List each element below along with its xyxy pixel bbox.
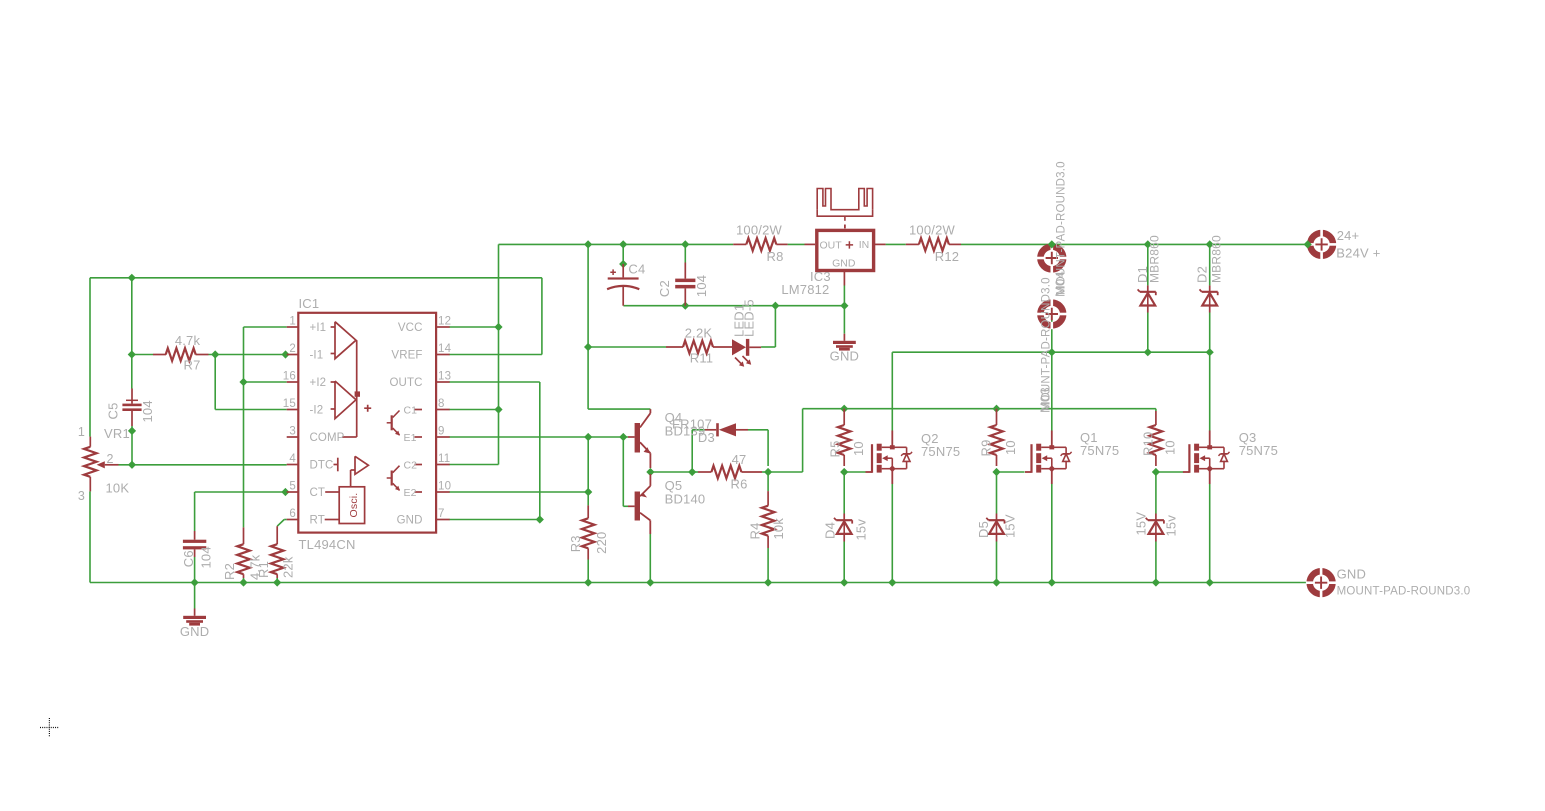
Q1 name label <box>1080 430 1098 445</box>
wire gate node down to D5 <box>996 472 998 514</box>
wire gate rail corner to R10 <box>1155 409 1157 411</box>
svg-text:100/2W: 100/2W <box>736 223 783 238</box>
svg-text:VREF: VREF <box>391 350 422 362</box>
resistor R6 <box>698 466 762 479</box>
svg-text:10: 10 <box>1003 440 1018 455</box>
svg-text:15: 15 <box>283 398 296 410</box>
svg-text:47: 47 <box>732 452 747 467</box>
D5 name label <box>976 521 991 538</box>
wire D6 bottom to rail <box>1155 542 1157 583</box>
svg-text:104: 104 <box>198 546 213 568</box>
junction rail at D5 <box>992 578 1000 586</box>
wire R6 node down to R4 <box>767 472 769 491</box>
wire rail to GND symbol <box>194 583 196 609</box>
IC1 oscillator box <box>325 487 365 524</box>
ground IC3 label <box>830 349 860 364</box>
svg-text:12: 12 <box>438 316 451 328</box>
junction rail at Q3 source <box>1206 578 1214 586</box>
R2 value label <box>248 554 263 580</box>
D1 name label <box>1135 266 1150 283</box>
wire R7 net <box>132 278 287 355</box>
wire DTC net (wiper to pin 4) <box>119 464 287 466</box>
svg-text:MOUNT-PAD-ROUND3.0: MOUNT-PAD-ROUND3.0 <box>1056 161 1068 295</box>
R6 value label <box>732 452 747 467</box>
C2 name label <box>657 280 672 297</box>
wire supply drop to R11/Q4 <box>588 244 650 409</box>
wire Q5 collector to rail <box>649 534 651 583</box>
wire analog ground net <box>623 305 844 307</box>
wire IC3 GND pin to net <box>843 286 845 306</box>
Q1 value label <box>1080 443 1119 458</box>
capacitor C6 <box>183 531 206 557</box>
wire D1 bottom to switched rail <box>1147 313 1149 353</box>
ground left label <box>180 624 210 639</box>
svg-text:10: 10 <box>851 441 866 456</box>
wire C5 bottom to wiper <box>131 426 133 465</box>
wire E2 node down to R3 <box>587 492 589 505</box>
svg-text:15V: 15V <box>1134 512 1149 536</box>
C5 value label <box>140 400 155 422</box>
resistor R8 <box>733 238 787 251</box>
junction rail at R3 <box>584 578 592 586</box>
svg-text:10k: 10k <box>771 518 786 540</box>
svg-text:TL494CN: TL494CN <box>299 537 356 552</box>
junction gate rail at R9 <box>992 405 1000 413</box>
svg-text:104: 104 <box>140 400 155 422</box>
IC1 oscillator label <box>348 493 360 518</box>
C6 name label <box>181 550 196 567</box>
svg-text:IC1: IC1 <box>299 296 320 311</box>
wire gate drive rail <box>803 408 1156 410</box>
wire +I1/+I2 branch to R2 <box>244 327 287 527</box>
B24V pad label <box>1336 246 1380 261</box>
junction rail at R1 <box>273 578 281 586</box>
resistor R11 <box>666 341 732 354</box>
R6 name label <box>730 477 747 492</box>
svg-text:10: 10 <box>1163 440 1178 455</box>
junction ground net at LED <box>771 302 779 310</box>
svg-text:IN: IN <box>859 239 870 251</box>
R3 name label <box>568 535 583 552</box>
wire D4 bottom to rail <box>843 542 845 583</box>
wire D3 branch up <box>692 430 705 472</box>
R8 value label <box>736 223 783 238</box>
svg-text:R8: R8 <box>766 249 783 264</box>
svg-text:MOUNT-PAD-ROUND3.0: MOUNT-PAD-ROUND3.0 <box>1337 586 1471 598</box>
svg-text:4: 4 <box>289 453 296 465</box>
wire left rail down to VR1 <box>89 278 91 437</box>
wire R5 bottom gate node to Q2 gate <box>844 471 865 473</box>
svg-text:22k: 22k <box>280 556 295 578</box>
svg-text:R3: R3 <box>568 535 583 552</box>
R4 value label <box>771 518 786 540</box>
wire D3 to R6 right node <box>748 430 768 466</box>
resistor R5 <box>838 409 851 466</box>
svg-text:8: 8 <box>438 398 445 410</box>
junction wiper node <box>128 461 136 469</box>
junction D3 branch node <box>688 468 696 476</box>
IC1 pin numbers <box>283 316 452 521</box>
wire Q1 source to rail <box>1051 484 1053 583</box>
wire gate drive net rise <box>768 409 803 472</box>
wire Q2 drain to switched rail <box>892 352 1209 430</box>
svg-text:-I1: -I1 <box>310 350 324 362</box>
junction C1 pin node <box>494 405 502 413</box>
voltage regulator IC3 LM7812 box <box>805 230 886 285</box>
svg-text:2: 2 <box>107 452 114 466</box>
wire R10 gate node to Q3 gate <box>1156 471 1183 473</box>
junction R5/D4 gate node <box>840 468 848 476</box>
wire CT net <box>195 492 286 531</box>
wire R1 bottom to rail <box>276 578 278 583</box>
svg-text:100/2W: 100/2W <box>909 223 956 238</box>
R11 name label <box>690 351 713 366</box>
wire top rail IC3 to R12 <box>886 243 906 245</box>
R4 name label <box>747 522 762 539</box>
LED LED1 <box>732 339 761 367</box>
svg-text:MBR860: MBR860 <box>1147 235 1161 283</box>
D2 value label <box>1209 235 1223 283</box>
wire -I2 branch <box>215 355 287 410</box>
wire D2 top stub <box>1209 244 1211 285</box>
B24V net label <box>1337 228 1360 243</box>
mount pad M03 <box>1037 299 1067 329</box>
junction feedback rail to R7 branch <box>128 274 136 282</box>
capacitor C4 <box>607 264 639 306</box>
junction ground net at C2 <box>681 302 689 310</box>
svg-text:C1: C1 <box>404 404 418 416</box>
M03 value label <box>1041 277 1053 411</box>
junction +I2 node <box>239 378 247 386</box>
svg-text:LED-5: LED-5 <box>742 299 757 337</box>
capacitor C5 <box>122 389 141 427</box>
wire C6 bottom to rail <box>194 557 196 583</box>
R7 name label <box>183 358 200 373</box>
R9 name label <box>979 439 994 456</box>
svg-text:15v: 15v <box>853 519 868 541</box>
junction top rail at C4 <box>619 240 627 248</box>
pad B24V+ <box>1306 229 1336 259</box>
svg-text:11: 11 <box>438 453 450 465</box>
wire OUTC to GND pin <box>449 382 540 520</box>
origin cross <box>40 718 59 737</box>
wire VREF to left feedback rail <box>90 278 542 355</box>
junction ground net at IC3 GND <box>840 302 848 310</box>
junction R9/D5 gate node <box>992 468 1000 476</box>
potentiometer VR1 <box>84 437 119 492</box>
svg-text:15v: 15v <box>1163 515 1178 537</box>
mount pad M04 <box>1037 243 1067 273</box>
Q4 value label <box>665 424 706 439</box>
wire R3 bottom to rail <box>587 560 589 583</box>
IC3 name label <box>810 269 831 284</box>
junction E1 net at Q5 base branch <box>619 433 627 441</box>
D4 value label <box>853 519 868 541</box>
wire C5 net <box>131 355 133 389</box>
resistor R10 <box>1150 411 1163 466</box>
wire ground net to GND symbol <box>843 306 845 334</box>
wire D2 bottom to switched rail <box>1209 313 1211 353</box>
svg-text:OUTC: OUTC <box>390 377 423 389</box>
junction C5 bottom node <box>128 427 136 435</box>
svg-text:4.7k: 4.7k <box>175 333 201 348</box>
svg-text:220: 220 <box>594 532 609 554</box>
wire C2 top stub <box>684 244 686 262</box>
svg-text:R4: R4 <box>747 522 762 539</box>
wire Q5 base branch <box>623 437 628 506</box>
svg-text:OUT: OUT <box>820 240 843 252</box>
junction R6 output node <box>764 468 772 476</box>
IC1 output transistor 2 <box>387 465 422 493</box>
IC3 GND pin label <box>832 257 856 269</box>
transistor Q5 BD140 <box>628 474 650 534</box>
svg-text:7: 7 <box>438 508 445 520</box>
IC1 dead-time comparator <box>334 456 369 487</box>
wire Q3 source to rail <box>1209 484 1211 583</box>
junction rail at Q5 collector <box>646 578 654 586</box>
junction rail at R2 <box>239 578 247 586</box>
svg-text:24+: 24+ <box>1337 228 1360 243</box>
R8 name label <box>766 249 783 264</box>
wire E1 net to driver bases <box>449 436 628 438</box>
LED1 name label <box>732 304 747 337</box>
D6 name label <box>1134 512 1149 536</box>
junction R10/D6 gate node <box>1152 468 1160 476</box>
wire E2 net <box>449 437 588 492</box>
svg-text:104: 104 <box>694 275 709 297</box>
M03 name label <box>1038 387 1053 413</box>
Q5 name label <box>665 478 683 493</box>
svg-text:14: 14 <box>438 343 452 355</box>
wire VR1 to bottom ground rail <box>89 491 91 582</box>
wire mount pad M03 to Q1 drain <box>1051 316 1053 431</box>
junction R11 tap <box>584 343 592 351</box>
junction top rail at D1 <box>1144 240 1152 248</box>
svg-text:10K: 10K <box>106 481 130 496</box>
GND pad label <box>1337 586 1471 598</box>
D5 value label <box>1003 514 1018 538</box>
R3 value label <box>594 532 609 554</box>
D6 value label <box>1163 515 1178 537</box>
transistor Q4 BD139 <box>628 409 650 468</box>
svg-text:75N75: 75N75 <box>1080 443 1119 458</box>
junction switched rail at D2/Q3 <box>1206 348 1214 356</box>
svg-text:GND: GND <box>1337 567 1367 582</box>
wire top rail R8 to IC3 <box>788 243 805 245</box>
Q3 name label <box>1239 430 1257 445</box>
svg-text:5: 5 <box>289 481 296 493</box>
IC3 value label <box>781 282 829 297</box>
VR1 pin 3 label <box>78 489 85 503</box>
junction top rail at B24V+ pad <box>1304 240 1312 248</box>
pad GND <box>1306 568 1336 598</box>
junction VCC corner <box>494 323 502 331</box>
IC1 comparator output to COMP <box>342 340 360 437</box>
junction rail at D6 <box>1152 578 1160 586</box>
M04 name label <box>1053 271 1068 297</box>
C6 value label <box>198 546 213 568</box>
svg-text:10: 10 <box>438 481 451 493</box>
wire gate node down to D6 <box>1155 472 1157 514</box>
wire VCC vertical to C1/C2 pins <box>449 327 499 465</box>
svg-text:2: 2 <box>289 343 296 355</box>
svg-text:75N75: 75N75 <box>1239 443 1278 458</box>
junction rail at D4 <box>840 578 848 586</box>
junction rail at R4 <box>764 578 772 586</box>
svg-text:E2: E2 <box>404 487 417 499</box>
Q5 value label <box>665 492 706 507</box>
diode D1 MBR860 <box>1138 285 1156 312</box>
svg-text:R2: R2 <box>222 563 237 580</box>
svg-text:MBR860: MBR860 <box>1209 235 1223 283</box>
M04 value label <box>1056 161 1068 295</box>
resistor R7 <box>153 348 209 361</box>
VR1 value label <box>106 481 130 496</box>
ground symbol IC3 <box>833 334 856 351</box>
zener diode D4 <box>834 514 852 542</box>
junction switched rail at D1 <box>1144 348 1152 356</box>
C5 name label <box>105 402 120 419</box>
wire C4 pin stub <box>622 244 624 264</box>
mosfet Q1 75N75 <box>1025 431 1072 485</box>
mosfet Q2 75N75 <box>866 431 913 485</box>
svg-text:GND: GND <box>397 515 423 527</box>
IC1 output transistor 1 <box>387 410 422 438</box>
junction R7 right node <box>211 350 219 358</box>
R11 value label <box>685 326 713 341</box>
VR1 name label <box>104 426 130 441</box>
wire bottom ground rail <box>90 582 1307 584</box>
svg-text:R1: R1 <box>256 561 271 578</box>
wire R9 gate node to Q1 gate <box>997 471 1025 473</box>
svg-text:Osci.: Osci. <box>348 493 360 518</box>
resistor R9 <box>990 409 1003 466</box>
svg-text:3: 3 <box>289 426 296 438</box>
junction top rail at mount pad M04 <box>1048 240 1056 248</box>
D1 value label <box>1147 235 1161 283</box>
svg-text:DTC: DTC <box>310 460 334 472</box>
wire VCC to top supply rail <box>449 244 733 327</box>
mosfet Q3 75N75 <box>1183 431 1230 485</box>
junction rail at Q2 source <box>888 578 896 586</box>
D2 name label <box>1194 266 1209 283</box>
svg-text:16: 16 <box>283 371 296 383</box>
junction R7 left node <box>128 350 136 358</box>
resistor R1 <box>271 526 284 578</box>
IC3 OUT pin label <box>820 240 843 252</box>
junction top rail at D2 <box>1206 240 1214 248</box>
svg-text:R7: R7 <box>183 358 200 373</box>
diode D3 FR107 <box>705 423 748 436</box>
diode D2 MBR860 <box>1200 285 1218 312</box>
svg-text:E1: E1 <box>404 432 417 444</box>
ground symbol left <box>183 609 206 626</box>
junction OUTC/GND node <box>536 515 544 523</box>
wire R2 bottom to rail <box>243 578 245 583</box>
junction rail at Q1 source <box>1048 578 1056 586</box>
svg-text:-I2: -I2 <box>310 405 324 417</box>
wire RT net diagonal to R1 <box>277 520 287 527</box>
junction CT pin node <box>281 488 289 496</box>
IC1 error amp 1 <box>331 322 356 359</box>
svg-text:R9: R9 <box>979 439 994 456</box>
wire gate node down to D4 <box>843 472 845 514</box>
svg-text:9: 9 <box>438 426 445 438</box>
zener diode D5 <box>986 514 1004 542</box>
svg-text:BD140: BD140 <box>665 492 706 507</box>
resistor R3 <box>582 505 595 559</box>
R5 name label <box>828 440 843 457</box>
svg-text:GND: GND <box>830 349 860 364</box>
GND net label <box>1337 567 1367 582</box>
wire D5 bottom to rail <box>996 542 998 583</box>
R1 name label <box>256 561 271 578</box>
capacitor C2 <box>675 263 695 306</box>
svg-text:C5: C5 <box>105 402 120 419</box>
resistor R12 <box>906 238 961 251</box>
heatsink <box>817 189 872 229</box>
svg-text:3: 3 <box>78 489 85 503</box>
R5 value label <box>851 441 866 456</box>
wire Q4 emitter junction to R6 <box>650 471 698 473</box>
D3 name label <box>698 430 715 445</box>
svg-text:R5: R5 <box>828 440 843 457</box>
junction Q4/Q5 emitter node <box>646 468 654 476</box>
junction gate rail at R5 <box>840 405 848 413</box>
R1 value label <box>280 556 295 578</box>
IC1 pin stubs <box>287 327 450 520</box>
junction E2 end node <box>584 488 592 496</box>
junction top rail at R11 drop <box>584 240 592 248</box>
D4 name label <box>822 522 837 539</box>
wire R4 bottom to rail <box>767 548 769 583</box>
R10 name label <box>1141 432 1156 456</box>
svg-text:VCC: VCC <box>398 322 423 334</box>
C4 name label <box>628 262 645 277</box>
svg-text:LM7812: LM7812 <box>781 282 829 297</box>
svg-text:75N75: 75N75 <box>921 444 960 459</box>
junction C4 top node <box>619 260 627 268</box>
svg-text:+I2: +I2 <box>310 377 327 389</box>
resistor R2 <box>237 527 250 578</box>
svg-text:D3: D3 <box>698 430 715 445</box>
svg-text:2.2K: 2.2K <box>685 326 713 341</box>
wire R11 lead <box>588 346 666 348</box>
VR1 pin 2 label <box>107 452 114 466</box>
junction E1 net at R3 column <box>584 433 592 441</box>
junction rail at C6 <box>191 578 199 586</box>
svg-text:CT: CT <box>310 487 326 499</box>
junction top rail at C2 <box>681 240 689 248</box>
svg-text:D4: D4 <box>822 522 837 539</box>
svg-text:R6: R6 <box>730 477 747 492</box>
Q4 name label <box>665 410 683 425</box>
svg-text:1: 1 <box>289 316 296 328</box>
LED1 value label <box>742 299 757 337</box>
R12 name label <box>935 249 959 264</box>
wire D1 top stub <box>1147 244 1149 285</box>
R9 value label <box>1003 440 1018 455</box>
svg-text:6: 6 <box>289 508 296 520</box>
wire LED1 cathode to ground net <box>761 306 775 347</box>
svg-text:B24V +: B24V + <box>1336 246 1380 261</box>
svg-text:D2: D2 <box>1194 266 1209 283</box>
svg-text:GND: GND <box>180 624 210 639</box>
D3 value label <box>672 416 712 431</box>
svg-text:C2: C2 <box>404 459 418 471</box>
IC1 name label <box>299 296 320 311</box>
svg-text:COMP: COMP <box>310 432 345 444</box>
